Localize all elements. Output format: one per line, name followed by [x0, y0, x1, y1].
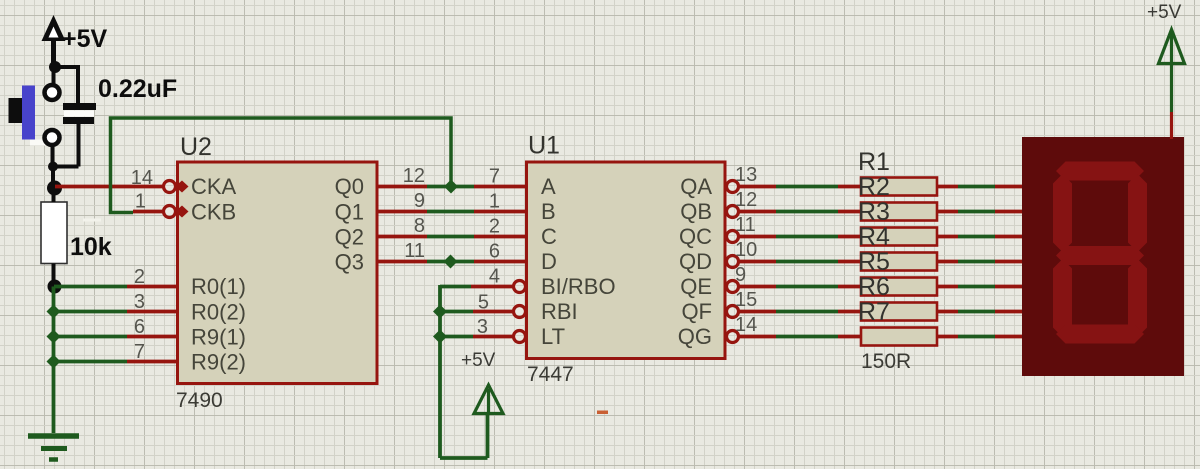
junction D row [444, 255, 458, 269]
pin U1 QD bubble [727, 256, 739, 268]
wire RBI row [440, 310, 514, 314]
svg-text:6: 6 [489, 241, 500, 263]
wire QG to R7 [739, 335, 863, 339]
svg-text:7: 7 [134, 341, 145, 363]
svg-text:14: 14 [735, 314, 757, 336]
wire R4 to display [937, 260, 1022, 264]
power +5V top-left arrow [42, 15, 66, 67]
svg-text:8: 8 [414, 215, 425, 237]
wire +5V bus bottom [440, 412, 488, 458]
svg-text:R7: R7 [858, 298, 890, 326]
svg-text:12: 12 [403, 165, 425, 187]
display body [1022, 137, 1184, 376]
wire +5V to display [1170, 33, 1173, 139]
svg-text:14: 14 [131, 167, 153, 189]
svg-text:D: D [541, 249, 557, 274]
wire BI/RBO row [440, 285, 514, 289]
resistor R7 [861, 328, 937, 346]
svg-text:7490: 7490 [176, 389, 223, 412]
svg-text:QA: QA [680, 174, 712, 199]
wire row6 to U2 [54, 335, 178, 339]
wire CKB feedback [111, 118, 452, 213]
svg-text:R9(2): R9(2) [191, 350, 246, 375]
ground [28, 436, 79, 460]
wire R7 to display [937, 335, 1022, 339]
svg-text:R2: R2 [858, 173, 890, 201]
resistor R2 [861, 203, 937, 221]
wire row7 to U2 [54, 360, 178, 364]
button terminal bottom [45, 130, 60, 145]
wire QF to R6 [739, 310, 863, 314]
capacitor C1 [53, 103, 96, 167]
wire junction to button [52, 65, 56, 84]
pin U1 QF bubble [727, 306, 739, 318]
wire junction to capacitor top [55, 65, 78, 104]
wire 10k bottom [52, 264, 56, 283]
svg-text:R5: R5 [858, 248, 890, 276]
svg-text:5: 5 [478, 292, 489, 314]
svg-text:RBI: RBI [541, 299, 578, 324]
junction LT [433, 330, 447, 344]
svg-text:QG: QG [678, 324, 712, 349]
resistor 10k [41, 202, 67, 264]
resistor R6 [861, 303, 937, 321]
svg-text:R3: R3 [858, 198, 890, 226]
pin U1 BI/RBO bubble [514, 281, 526, 293]
svg-text:CKA: CKA [191, 174, 237, 199]
svg-text:4: 4 [489, 266, 500, 288]
svg-text:U1: U1 [528, 132, 560, 160]
wire CKB red segment [133, 210, 164, 214]
svg-text:6: 6 [134, 316, 145, 338]
svg-text:QC: QC [679, 224, 712, 249]
svg-text:10: 10 [735, 239, 757, 261]
svg-text:Q1: Q1 [335, 200, 364, 225]
wire QC to R3 [739, 235, 863, 239]
svg-text:1: 1 [489, 191, 500, 213]
svg-text:3: 3 [477, 316, 488, 338]
svg-text:Q0: Q0 [335, 174, 364, 199]
junction row6 [47, 330, 61, 344]
chip U1 body [527, 162, 726, 359]
svg-text:R0(2): R0(2) [191, 300, 246, 325]
pin U1 QC bubble [727, 231, 739, 243]
svg-text:CKB: CKB [191, 200, 236, 225]
wire Q0 to U1 [377, 185, 527, 189]
pin U1 RBI bubble [514, 306, 526, 318]
junction top [49, 61, 61, 73]
wire R1 to display [937, 185, 1022, 189]
wire R6 to display [937, 310, 1022, 314]
wire QE to R5 [739, 285, 863, 289]
artifact white dash [83, 219, 101, 222]
junction Q0-CKB [444, 180, 458, 194]
resistor R5 [861, 278, 937, 296]
power +5V arrow mid [474, 385, 503, 414]
resistor R3 [861, 228, 937, 246]
pin U2 CKB bubble [164, 206, 189, 218]
svg-text:U2: U2 [180, 133, 212, 161]
svg-text:R4: R4 [858, 223, 890, 251]
svg-text:R0(1): R0(1) [191, 274, 246, 299]
wire Q2 to U1 [377, 235, 527, 239]
svg-text:11: 11 [404, 240, 425, 262]
pin U1 QB bubble [727, 206, 739, 218]
wire +5V bus vertical [438, 285, 442, 458]
svg-text:12: 12 [735, 189, 757, 211]
svg-text:QB: QB [680, 199, 712, 224]
svg-text:9: 9 [735, 264, 746, 286]
resistor R4 [861, 253, 937, 271]
button terminal top [45, 85, 60, 100]
wire LT row [440, 335, 514, 339]
svg-text:QD: QD [679, 249, 712, 274]
wire CKA node to U2 CKA [55, 185, 164, 189]
svg-text:1: 1 [135, 191, 146, 213]
svg-text:9: 9 [414, 190, 425, 212]
wire row3 to U2 [54, 310, 178, 314]
wire left bus down [52, 287, 56, 434]
junction row3 [47, 305, 61, 319]
chip U2 body [178, 162, 378, 384]
svg-text:0.22uF: 0.22uF [98, 75, 177, 103]
svg-text:C: C [541, 224, 557, 249]
junction row2 [48, 280, 62, 294]
resistor R1 [861, 178, 937, 196]
wire R2 to display [937, 210, 1022, 214]
svg-text:10k: 10k [70, 233, 112, 261]
svg-text:7447: 7447 [527, 363, 574, 386]
svg-text:150R: 150R [861, 350, 911, 373]
svg-text:LT: LT [541, 324, 565, 349]
svg-text:R6: R6 [858, 273, 890, 301]
svg-text:BI/RBO: BI/RBO [541, 274, 616, 299]
junction RBI [433, 305, 447, 319]
pin U1 QG bubble [727, 331, 739, 343]
display digit 8 [1053, 162, 1147, 344]
power +5V arrow top-right [1159, 30, 1185, 64]
junction row7 [47, 355, 61, 369]
svg-text:R9(1): R9(1) [191, 325, 246, 350]
wire QB to R2 [739, 210, 863, 214]
wire R5 to display [937, 285, 1022, 289]
pin U1 LT bubble [514, 331, 526, 343]
svg-text:R1: R1 [858, 148, 890, 176]
svg-text:B: B [541, 199, 556, 224]
wire Q3 to U1 [377, 260, 527, 264]
wire QD to R4 [739, 260, 863, 264]
pin U1 QA bubble [727, 181, 739, 193]
wire button to node [51, 146, 55, 168]
junction cap bottom [48, 162, 58, 172]
wire R3 to display [937, 235, 1022, 239]
svg-text:+5V: +5V [461, 350, 496, 371]
wire row2 to U2 [54, 285, 178, 289]
svg-text:+5V: +5V [1147, 2, 1182, 23]
svg-text:QF: QF [681, 299, 712, 324]
pin U1 QE bubble [727, 281, 739, 293]
svg-text:A: A [541, 174, 556, 199]
svg-text:2: 2 [134, 266, 145, 288]
svg-text:Q3: Q3 [335, 250, 364, 275]
svg-text:2: 2 [489, 216, 500, 238]
svg-text:QE: QE [680, 274, 712, 299]
svg-text:7: 7 [489, 166, 500, 188]
junction CKA node [47, 181, 62, 196]
artifact orange dash [597, 411, 608, 415]
wire Q1 to U1 [377, 210, 527, 214]
wire QA to R1 [739, 185, 863, 189]
svg-text:Q2: Q2 [335, 225, 364, 250]
svg-text:3: 3 [134, 291, 145, 313]
svg-text:13: 13 [735, 164, 757, 186]
svg-text:15: 15 [735, 289, 757, 311]
push button actuator [9, 86, 52, 146]
wire node to CKA node [51, 167, 55, 191]
pin U2 CKA bubble [164, 181, 189, 193]
svg-text:+5V: +5V [62, 25, 108, 53]
wire 10k top [52, 194, 56, 202]
svg-text:11: 11 [735, 214, 756, 236]
